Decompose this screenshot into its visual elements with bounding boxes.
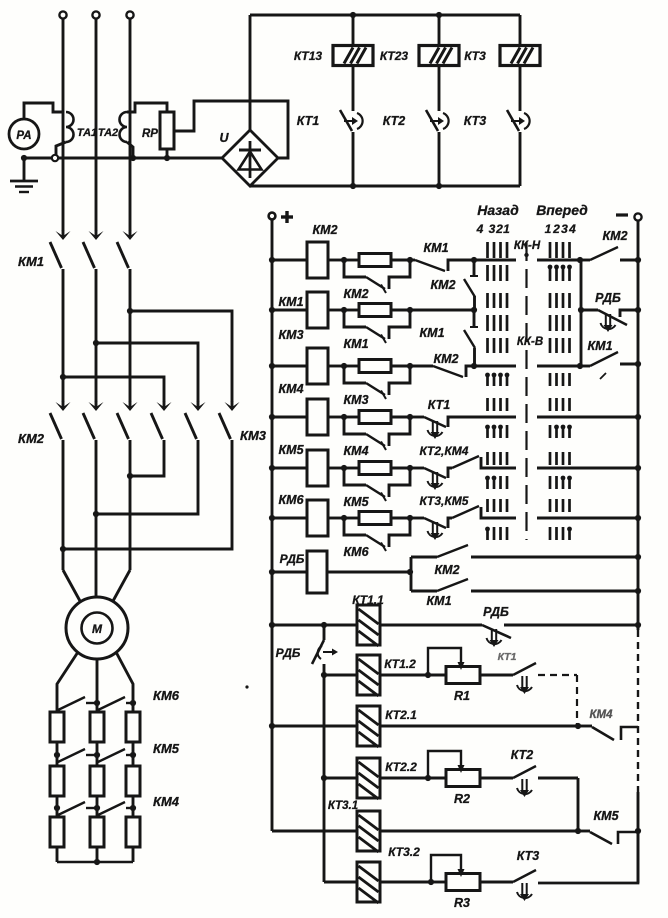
svg-text:М: М [92, 622, 103, 636]
svg-text:КТ1: КТ1 [498, 651, 517, 663]
svg-text:КМ1: КМ1 [343, 337, 368, 351]
contact KM3 pole 1 [157, 402, 172, 411]
node row2-chain [471, 307, 477, 313]
wire РДБ bracket [410, 557, 413, 591]
resistor economy КМ1 [328, 309, 344, 312]
resistor rotor r2-3 [126, 766, 140, 796]
svg-text:2: 2 [495, 222, 503, 236]
svg-text:R3: R3 [454, 896, 470, 910]
node TA1-bus [52, 155, 58, 161]
svg-text:КМ6: КМ6 [278, 493, 304, 507]
node phase2 to KM3 [93, 340, 99, 346]
wire rotor col2 b [96, 796, 99, 817]
relay coil КТ2.1 [272, 725, 357, 728]
node rail row КМ2 [269, 257, 275, 263]
svg-text:КТ2: КТ2 [511, 748, 533, 762]
contactor coil КМ6 [272, 517, 307, 520]
wire rotor col1 c [56, 847, 59, 862]
resistor R3 [380, 881, 431, 884]
contact КМ1 row3 exit [580, 365, 590, 368]
contact KM6 rotor short [58, 697, 85, 710]
relay coil КТ3 [519, 15, 522, 44]
controller KK column 2 [493, 242, 496, 258]
svg-text:КТ2.1: КТ2.1 [385, 708, 417, 722]
svg-text:КМ3: КМ3 [240, 428, 267, 443]
wire DC+ riser [249, 15, 252, 130]
controller KK column 5 [549, 242, 552, 258]
contactor coil КМ3 [272, 365, 307, 368]
contact KM5 rotor short [58, 749, 85, 762]
svg-text:КМ2: КМ2 [18, 431, 45, 446]
node reverse tie 1-6 [60, 546, 66, 552]
wire motor lead left [63, 570, 80, 601]
svg-text:КТ1.1: КТ1.1 [352, 593, 384, 607]
svg-text:2: 2 [552, 222, 560, 236]
wire exit chain upper [580, 260, 583, 310]
wire phase1 upper [62, 19, 65, 231]
contact КТ1 time-delay row [410, 416, 424, 419]
svg-text:КМ2: КМ2 [433, 352, 458, 366]
controller KK column 3 [499, 242, 502, 258]
node РДБ bracket [407, 569, 413, 575]
wire right rail dashed [637, 630, 639, 792]
wire row5 through controller to rail [537, 467, 638, 470]
relay coil КТ1.1 [357, 605, 380, 645]
contact КТ2 time-delay row [410, 467, 424, 470]
svg-text:КМ4: КМ4 [589, 709, 613, 721]
svg-text:РДБ: РДБ [276, 646, 301, 660]
contact КТ3 time-delay row [410, 517, 424, 520]
node row1-chain [471, 257, 477, 263]
resistor economy КМ3 [328, 365, 344, 368]
wire rotor col3 b [132, 796, 135, 817]
wire KM3 out 5 [96, 440, 198, 514]
node rail row КМ3 [269, 363, 275, 369]
wire rotor col3 a [132, 742, 135, 766]
svg-text:КТ1: КТ1 [297, 114, 319, 128]
contact bypass КМ2 [344, 260, 366, 277]
wire phase2 lower [95, 269, 98, 402]
svg-text:1: 1 [545, 222, 552, 236]
wire rotor col2 a [96, 742, 99, 766]
resistor rotor r1-2 [90, 712, 104, 742]
wire phase3 lower [129, 269, 132, 402]
wire KM2 out 1 [62, 440, 65, 570]
wire tap arrow R2 [428, 751, 461, 776]
contact КМ4 aux row [452, 456, 479, 468]
contactor coil КМ5 [272, 467, 307, 470]
wire TA1 to bus [56, 142, 66, 158]
wire RP bottom [166, 149, 169, 158]
svg-text:КТ3: КТ3 [464, 49, 486, 63]
svg-text:Назад: Назад [477, 202, 519, 218]
wire subrail 9-11 [323, 675, 326, 778]
svg-text:РДБ: РДБ [595, 291, 621, 305]
node bottom rail KT2 [436, 183, 442, 189]
wire KM3 out 4 [130, 440, 164, 476]
node row3 exit [577, 363, 583, 369]
node row1 exit [577, 257, 583, 263]
svg-text:КМ1: КМ1 [18, 254, 44, 269]
wire row13 return [538, 831, 638, 883]
node rail РДБ row [635, 307, 641, 313]
node reverse tie 2-5 [93, 511, 99, 517]
ammeter PA [9, 119, 39, 149]
contact КМ5 row12 [578, 830, 590, 833]
svg-text:КМ3: КМ3 [343, 393, 368, 407]
contact КМ2 РДБ hold upper [411, 556, 437, 559]
svg-text:КТ23: КТ23 [380, 49, 409, 63]
svg-text:КТ3: КТ3 [464, 114, 486, 128]
node bottom rail KT1 [350, 183, 356, 189]
svg-text:КМ4: КМ4 [343, 444, 368, 458]
relay coil КТ1.2 [324, 674, 357, 677]
contact bypass КМ4 [344, 417, 366, 434]
contact РДБ release left [323, 625, 326, 640]
contact КМ2 row3 [410, 365, 433, 368]
wire rail corner row12 [272, 830, 357, 833]
node RP-bus [164, 155, 170, 161]
svg-text:КТ1: КТ1 [428, 398, 450, 412]
wire rotor col1 b [56, 796, 59, 817]
bus wire PA-TA-RP-rectifier [24, 157, 222, 160]
resistor rotor r3-2 [90, 817, 104, 847]
svg-text:3: 3 [489, 222, 496, 236]
node rail row КМ4 [269, 414, 275, 420]
svg-text:КТ2.2: КТ2.2 [385, 760, 417, 774]
wire tap arrow R1 [428, 648, 461, 673]
terminal L3 [126, 11, 133, 18]
svg-text:4: 4 [476, 222, 484, 236]
contact bypass КМ1 [344, 310, 366, 327]
contact КМ2 chain row1-row2 [473, 260, 476, 275]
svg-text:КМ5: КМ5 [593, 809, 619, 823]
node rail row12 [635, 828, 641, 834]
wire top rail [250, 14, 520, 17]
wire rotor col2 c [96, 847, 99, 862]
resistor rotor r2-1 [50, 766, 64, 796]
wire phase1 lower [62, 269, 65, 402]
node star point [94, 859, 100, 865]
svg-text:3: 3 [561, 222, 568, 236]
current transformer TA2 [120, 112, 127, 142]
resistor rotor r3-1 [50, 817, 64, 847]
node subrail row11 [321, 775, 327, 781]
resistor economy КМ6 [328, 517, 344, 520]
resistor rotor r1-1 [50, 712, 64, 742]
wire row1 controller right [537, 259, 580, 262]
wire phase1 crossover [63, 377, 164, 402]
current transformer TA1 [66, 112, 74, 142]
node row5 rail [635, 465, 641, 471]
node row10 [575, 723, 581, 729]
svg-text:КМ5: КМ5 [278, 443, 304, 457]
resistor RP [160, 112, 174, 149]
terminal L2 [92, 11, 99, 18]
node reverse tie 3-4 [127, 473, 133, 479]
terminal L1 [59, 11, 66, 18]
contact КТ3 time-delay [519, 67, 522, 111]
svg-text:Вперед: Вперед [536, 202, 588, 218]
resistor rotor r3-3 [126, 817, 140, 847]
wire row1 into controller [474, 259, 516, 262]
svg-text:КТ3.1: КТ3.1 [328, 800, 358, 812]
contact КТ2 time-delay [438, 67, 441, 111]
wire row9 dashed [538, 674, 577, 676]
controller closure marks [548, 265, 553, 270]
node rail row8 [635, 622, 641, 628]
wire row8 left [272, 624, 357, 627]
contact bypass КМ5 [344, 468, 366, 485]
controller KK column 8 [568, 242, 571, 258]
node rail row3 [635, 361, 641, 367]
ground [23, 158, 26, 180]
relay coil КТ23 [438, 15, 441, 44]
svg-text:КТ3‚КМ5: КТ3‚КМ5 [420, 494, 469, 508]
wire exit chain lower [580, 310, 583, 366]
contact bypass КМ6 [344, 518, 366, 535]
node rail КМ1 hold [635, 588, 641, 594]
wire KM2 out 2 [95, 440, 98, 598]
contact KM1 pole 1 [56, 231, 71, 240]
svg-text:КМ2: КМ2 [602, 229, 627, 243]
svg-text:ТА2: ТА2 [98, 127, 118, 139]
node row6 rail [635, 515, 641, 521]
svg-text:КТ2‚КМ4: КТ2‚КМ4 [420, 444, 469, 458]
contact KM1 pole 2 [89, 231, 104, 240]
node exit РДБ row [578, 307, 584, 313]
svg-text:КТ13: КТ13 [294, 49, 323, 63]
controller KK column 1 [486, 242, 489, 258]
wire row6 through controller to rail [537, 517, 638, 520]
svg-text:КТ1.2: КТ1.2 [384, 657, 416, 671]
svg-text:КМ4: КМ4 [153, 794, 180, 809]
wire rotor lead 3 [116, 652, 133, 712]
svg-text:КМ1: КМ1 [278, 295, 303, 309]
node subrail row9 [321, 672, 327, 678]
wire bottom rail [250, 185, 520, 188]
resistor economy КМ4 [328, 416, 344, 419]
controller KK column 4 [506, 242, 509, 258]
wire rotor col1 a [56, 742, 59, 766]
motor M [66, 597, 128, 659]
wire row12 [380, 830, 578, 833]
rectifier U [222, 130, 278, 186]
controller KK column 7 [562, 242, 565, 258]
node phase3 to KM3 [127, 308, 133, 314]
resistor economy КМ2 [328, 259, 344, 262]
wire row3 into controller [474, 365, 516, 368]
svg-text:КМ4: КМ4 [278, 382, 303, 396]
node PA-bus [21, 155, 27, 161]
wire phase3 crossover [130, 311, 232, 402]
contact КМ5 aux row [452, 506, 479, 518]
svg-text:ТА1: ТА1 [77, 127, 97, 139]
wire PA to TA1 [24, 103, 64, 120]
contact KM1 pole 3 [123, 231, 138, 240]
node rail row10 [269, 723, 275, 729]
node phase1 to KM3 [60, 374, 66, 380]
node rail РДБ coil row [269, 569, 275, 575]
wire rotor col3 c [132, 847, 135, 862]
wire tap arrow R3 [431, 855, 461, 880]
node row3-chain [471, 363, 477, 369]
node rail row КМ1 [269, 307, 275, 313]
wire row11-row12 [577, 778, 580, 831]
wire KM2 out 3 [129, 440, 132, 570]
wire row2 to chain [410, 309, 474, 312]
wire right rail lower [637, 792, 640, 883]
wire rotor lead 2 [96, 659, 99, 712]
resistor rotor r2-2 [90, 766, 104, 796]
svg-text:КМ3: КМ3 [278, 328, 303, 342]
wire phase3 upper [129, 19, 132, 231]
svg-text:4: 4 [568, 222, 576, 236]
wire row9-row10 dashed [576, 675, 578, 726]
relay coil КТ3.2 [324, 881, 357, 884]
resistor R2 [380, 777, 428, 780]
wire KM3 out 6 [63, 440, 232, 549]
contact KM3 pole 2 [191, 402, 206, 411]
node top rail KT1 [350, 12, 356, 18]
wire TA2 to bus [127, 142, 133, 158]
svg-text:КМ1: КМ1 [423, 241, 448, 255]
contact KM4 rotor short [58, 802, 85, 815]
svg-text:КМ1: КМ1 [426, 594, 451, 608]
svg-text:РДБ: РДБ [280, 552, 305, 566]
contact КМ4 row10 [578, 725, 592, 728]
resistor rotor r1-3 [126, 712, 140, 742]
contact KM2 pole 3 [123, 402, 138, 411]
wire row13 [324, 881, 357, 884]
wire TA2 to RP top [127, 103, 167, 112]
relay coil КТ2.2 [324, 777, 357, 780]
contact КТ2 time-delay [480, 777, 513, 780]
contact РДБ delayed row8 [380, 624, 482, 627]
svg-text:R2: R2 [454, 792, 470, 806]
node rail row1 [635, 257, 641, 263]
contact bypass КМ3 [344, 366, 366, 383]
svg-text:КМ2: КМ2 [312, 223, 337, 237]
svg-text:КМ1: КМ1 [419, 326, 444, 340]
svg-text:1: 1 [503, 222, 510, 236]
wire right rail upper [637, 221, 640, 630]
svg-text:КТ3: КТ3 [517, 849, 539, 863]
svg-text:КТ3.2: КТ3.2 [388, 845, 420, 859]
wire RP to rectifier [174, 101, 288, 158]
wire phase2 crossover [96, 343, 198, 402]
wire row4 through controller to rail [537, 416, 638, 419]
wire row10 [380, 725, 578, 728]
terminal minus [634, 213, 641, 220]
svg-text:КМ6: КМ6 [153, 688, 180, 703]
relay coil КТ13 [352, 15, 355, 44]
svg-text:КМ5: КМ5 [153, 741, 180, 756]
contact КМ1 РДБ hold lower [411, 590, 437, 593]
node subrail top [321, 622, 327, 628]
contact КМ2 row1 exit [580, 259, 590, 262]
node row4 rail [635, 414, 641, 420]
resistor economy КМ5 [328, 467, 344, 470]
svg-text:RP: RP [142, 128, 158, 140]
contact КМ1 row1 [410, 259, 415, 262]
node row12 [575, 828, 581, 834]
node rail row КМ5 [269, 465, 275, 471]
wire row11 right [538, 777, 578, 780]
wire РДБ coil to bracket [327, 571, 410, 574]
svg-text:КМ5: КМ5 [343, 495, 369, 509]
wire phase2 upper [95, 19, 98, 231]
contact KM2 pole 1 [56, 402, 71, 411]
svg-text:КМ1: КМ1 [587, 339, 612, 353]
wire left rail [271, 219, 274, 831]
contact KM2 pole 2 [89, 402, 104, 411]
controller KK zero column [525, 242, 527, 540]
controller KK column 6 [555, 242, 558, 258]
svg-text:КК-Н: КК-Н [514, 240, 541, 252]
wire motor lead right [113, 570, 130, 601]
svg-text:РА: РА [16, 130, 31, 142]
stray mark [245, 685, 248, 688]
wire subrail 11-13 [323, 778, 326, 882]
node rail row КТ1.1 [269, 622, 275, 628]
svg-text:КМ2: КМ2 [430, 278, 455, 292]
resistor R1 [380, 674, 428, 677]
svg-text:КМ2: КМ2 [434, 563, 459, 577]
contact КТ3 time-delay [480, 881, 513, 884]
contact KM3 pole 3 [225, 402, 240, 411]
contact РДБ delayed right [581, 309, 598, 312]
wire rotor lead 1 [57, 652, 78, 712]
contactor coil КМ1 [272, 309, 307, 312]
svg-text:U: U [219, 131, 229, 145]
node rail row КМ6 [269, 515, 275, 521]
relay coil КТ3.1 [357, 811, 380, 851]
terminal plus [269, 213, 276, 220]
svg-text:R1: R1 [454, 689, 470, 703]
svg-text:РДБ: РДБ [483, 605, 509, 619]
node rail КМ2 hold [635, 554, 641, 560]
contact КТ1 time-delay [352, 67, 355, 111]
svg-text:КМ6: КМ6 [343, 545, 369, 559]
contactor coil КМ4 [272, 416, 307, 419]
wire rotor star join [57, 861, 133, 864]
contact КМ1 chain row2-row3 [473, 310, 476, 326]
relay coil РДБ [272, 571, 307, 574]
stray tick [600, 373, 606, 379]
wire row3 controller right [537, 365, 580, 368]
contactor coil КМ2 [272, 259, 307, 262]
node zero column [524, 253, 528, 257]
node TA2-bus [130, 155, 136, 161]
svg-text:КК-В: КК-В [517, 336, 543, 348]
contact КТ1 time-delay [480, 674, 513, 677]
svg-text:КТ2: КТ2 [383, 114, 405, 128]
svg-text:КМ2: КМ2 [343, 287, 368, 301]
node top rail KT2 [436, 12, 442, 18]
